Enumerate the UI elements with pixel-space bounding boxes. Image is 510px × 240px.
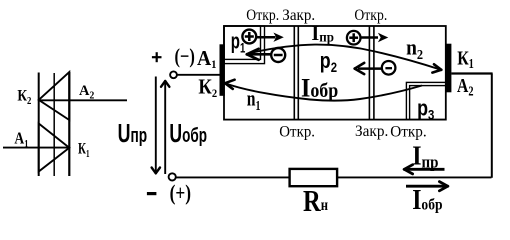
junction J3 double line: [368, 26, 370, 120]
svg-text:Закр.: Закр.: [355, 123, 388, 140]
electrode bar K2: [220, 44, 225, 96]
arrow left from p2 electron: [358, 67, 382, 70]
terminal node (bottom left): [169, 173, 176, 180]
wire bottom rail: [176, 176, 492, 178]
terminal node (top left): [170, 71, 177, 78]
current arrow Iпр (left): [406, 168, 445, 171]
dinistor symbol: left bar: [38, 73, 40, 177]
dinistor symbol: middle line: [53, 73, 55, 176]
svg-text:Откр.: Откр.: [354, 7, 387, 24]
p1 region pocket (nested rectangles): [224, 26, 261, 59]
wire right rail down: [491, 74, 493, 178]
electron flow curve n2 (arc to right electrode): [248, 45, 441, 70]
hole carrier (plus circle) in p1: [242, 30, 256, 44]
label minus at cathode terminal: [147, 192, 157, 195]
voltage arrow Uобр (up): [164, 82, 166, 175]
dinistor symbol: bottom diode triangle: [39, 124, 70, 172]
wire from terminal to K2 electrode: [177, 74, 221, 76]
p3 region pocket (nested rectangles): [410, 86, 446, 120]
semiconductor structure box: [224, 26, 446, 120]
svg-text:Откр.: Откр.: [279, 124, 315, 141]
label plus at anode terminal: [152, 56, 162, 58]
voltage arrow Uпр (down): [155, 77, 157, 173]
resistor Rн: [290, 169, 338, 186]
arrow right from p2 hole: [362, 36, 379, 39]
svg-text:(−): (−): [175, 44, 195, 68]
svg-text:Откр.: Откр.: [246, 7, 279, 24]
arrow left from p1 electron: [250, 53, 272, 56]
dinistor symbol: right bar: [68, 72, 70, 176]
arrow right from p1 hole: [256, 36, 276, 39]
wire from K1 electrode to right rail: [451, 72, 492, 74]
svg-text:Откр.: Откр.: [390, 124, 427, 141]
electron flow curve n1 (arc to left electrode): [226, 83, 423, 100]
electrode bar K1: [445, 44, 451, 93]
wire lead A1 of symbol: [3, 147, 69, 149]
dinistor symbol: top diode triangle: [39, 72, 70, 120]
wire lead A2 of symbol: [39, 99, 127, 101]
svg-text:Закр.: Закр.: [282, 7, 315, 24]
electron carrier (minus circle) in p1: [271, 48, 285, 62]
junction J2 double line: [293, 26, 295, 120]
svg-text:(+): (+): [170, 180, 191, 205]
current arrow Iобр (right): [406, 185, 446, 188]
electron carrier (minus circle) in p2: [382, 61, 396, 75]
hole carrier (plus circle) in p2: [347, 31, 361, 45]
